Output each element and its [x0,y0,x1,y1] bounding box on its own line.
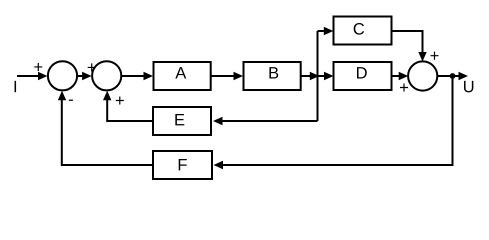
arrowhead into S1 left [38,72,48,80]
node U output label [464,81,473,93]
summing junction S3 [408,61,437,90]
wire F output to S1 bottom [62,94,153,165]
arrowhead into S3 top [418,52,426,62]
junction dot on output wire [450,73,456,79]
wire branch vertical through node N1 [317,31,319,121]
arrowhead into B [234,72,244,80]
block F box [153,151,212,179]
wire output feedback from junction dot to block F [216,76,453,165]
wire input I to summing junction S1 [17,75,45,77]
arrowhead into C [324,27,334,35]
wire S3 to output U [438,75,466,77]
block C box [334,17,392,45]
label D [357,67,367,78]
plus sign at S3 top input [430,52,438,60]
wire S2 to block A [122,75,151,77]
arrowhead into S3 left [399,72,409,80]
arrowhead into F right side [214,161,224,169]
plus sign at S2 input [88,63,96,71]
wire A to block B [212,75,241,77]
wire S1 to S2 [77,75,89,77]
plus sign at S1 input [34,63,42,71]
arrowhead into S2 left [82,72,92,80]
arrowhead into S2 bottom [103,91,111,101]
wire D to summing junction S3 [393,75,406,77]
block B box [244,62,301,90]
block E box [153,107,211,135]
label A [175,67,186,78]
plus sign at S2 lower input [116,96,124,104]
label F [179,159,187,170]
summing junction S1 [48,61,77,90]
wire N1 corner to block C [318,30,331,32]
node I input label [15,81,17,92]
label C [354,23,364,35]
arrowhead into E right side [213,117,223,125]
arrowhead at output U [459,72,469,80]
block A box [154,62,211,90]
arrowhead into A [144,72,154,80]
minus sign at S1 lower input [69,100,73,101]
arrowhead into S1 bottom [58,91,66,101]
wire feedback tap from N1 to block E [216,120,318,122]
wire B to branch node N1 [301,75,316,77]
plus sign at S3 left input [400,83,408,91]
arrowhead into D [324,72,334,80]
summing junction S2 [92,61,121,90]
wire C to summing junction S3 [393,31,423,58]
block D box [334,62,392,90]
wire E output to S2 bottom [107,94,152,121]
arrowhead at branch node N1 [310,72,320,80]
label E [175,114,184,125]
label B [269,67,278,78]
wire N1 to block D [318,75,331,77]
